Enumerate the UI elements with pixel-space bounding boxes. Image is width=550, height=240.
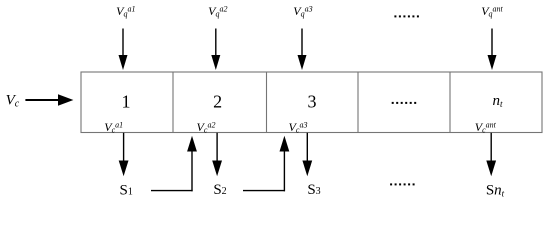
label S2 (213, 182, 226, 198)
cell label nt (492, 93, 503, 109)
cell label 2 (213, 92, 222, 112)
svg-text:2: 2 (213, 92, 222, 112)
output arrow from cell nt to Snt (486, 133, 496, 177)
label Snt (486, 182, 505, 198)
label Vc^ant (475, 120, 497, 135)
label Vc^a2 (197, 120, 216, 135)
top ellipsis dots (394, 15, 419, 17)
label Vq^ant (481, 4, 503, 18)
output arrow from cell 1 to S1 (119, 133, 129, 177)
label Vc^a3 (289, 120, 308, 135)
cell divider 1|2 (172, 72, 174, 133)
label Vq^a3 (293, 4, 312, 18)
output arrow from cell 3 to S3 (302, 133, 312, 177)
cell ellipsis dots (392, 102, 417, 104)
cell divider dots|nt (449, 72, 451, 133)
delay-line box outline (81, 72, 542, 133)
svg-text:3: 3 (308, 92, 317, 112)
input arrow Vq^ant into cell nt (488, 29, 497, 71)
svg-text:1: 1 (122, 92, 131, 112)
label S3 (307, 182, 320, 198)
feedback wire from S2 up into cell 3 (243, 136, 289, 192)
output arrow from cell 2 to S2 (212, 133, 222, 177)
bottom ellipsis dots (390, 183, 415, 185)
label Vq^a1 (116, 4, 135, 18)
input arrow Vq^a3 into cell 3 (298, 29, 307, 71)
input arrow Vq^a2 into cell 2 (211, 29, 220, 71)
label S1 (120, 183, 133, 199)
label Vc^a1 (104, 120, 123, 135)
cell divider 2|3 (266, 72, 268, 133)
input arrow Vc into cell 1 (25, 94, 73, 106)
input arrow Vq^a1 into cell 1 (119, 29, 128, 71)
label Vq^a2 (208, 4, 227, 18)
cell label 1 (122, 92, 131, 112)
cell label 3 (308, 92, 317, 112)
cell divider 3|dots (357, 72, 359, 133)
label Vc (6, 92, 20, 109)
feedback wire from S1 up into cell 2 (151, 136, 197, 192)
